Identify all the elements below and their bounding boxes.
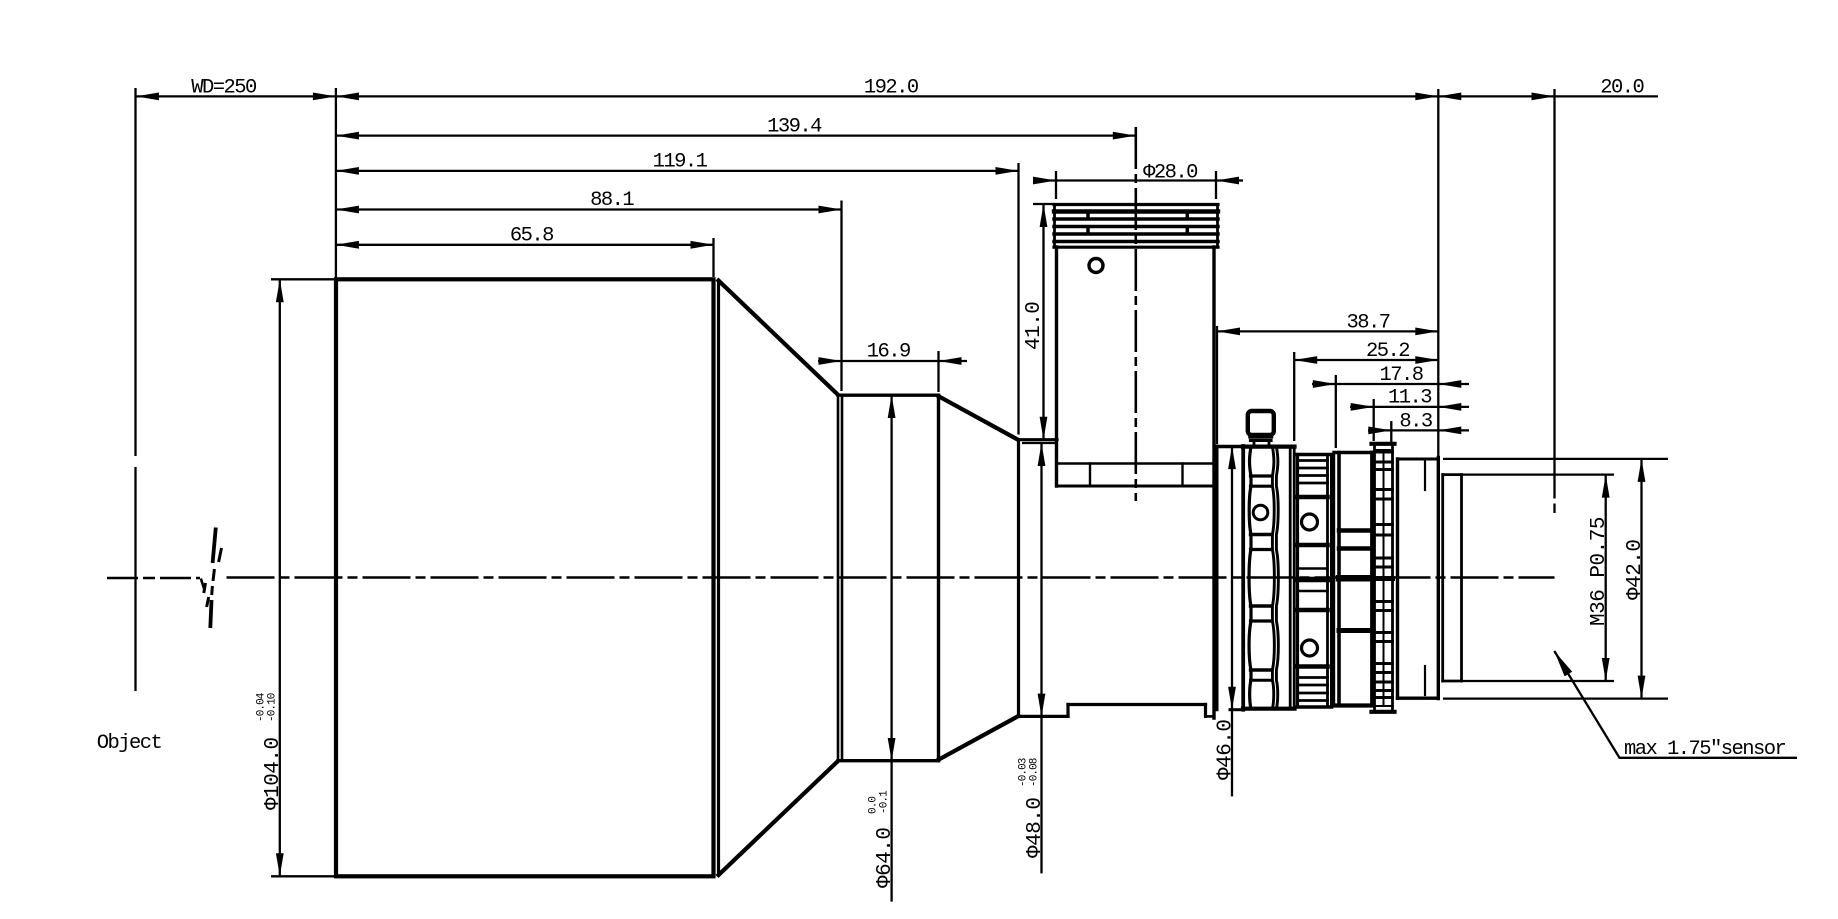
leader arrow to sensor plane — [1554, 651, 1572, 676]
phi46 arrows — [1228, 446, 1236, 469]
leader line to sensor note — [1554, 651, 1797, 758]
taper phi64 to phi48 bottom — [939, 716, 1019, 760]
extension line 20.0 right / sensor plane — [1553, 89, 1555, 499]
svg-text:-0.08: -0.08 — [1029, 758, 1041, 787]
bottom step down at 1205.5 — [1204, 705, 1207, 717]
dim phi46 vertical — [1231, 446, 1233, 796]
front ring second edge — [717, 281, 720, 876]
ring A (wide knurled ring) — [1243, 445, 1295, 449]
ring A horizontal bands — [1251, 474, 1273, 477]
svg-text:WD=250: WD=250 — [191, 77, 257, 100]
svg-text:Φ64.0: Φ64.0 — [874, 827, 897, 888]
svg-text:139.4: 139.4 — [767, 116, 822, 139]
17.8 arrows (outside) — [1313, 380, 1336, 388]
phi48 barrel left edge — [1017, 440, 1020, 716]
object plane vertical line — [134, 88, 136, 456]
label phi104.0 with tolerance — [255, 692, 285, 810]
label phi48.0 with tolerance — [1018, 758, 1048, 858]
41.0 arrows — [1040, 204, 1048, 227]
139.4 arrows — [336, 132, 359, 140]
svg-text:max 1.75″sensor: max 1.75″sensor — [1624, 738, 1786, 761]
svg-text:Object: Object — [97, 732, 162, 755]
tube cap knurl — [1054, 203, 1218, 206]
lens retainer inside tube bottom — [1057, 462, 1215, 464]
dim 17.8 — [1312, 383, 1469, 385]
phi48 bottom edge — [1019, 715, 1069, 718]
dim phi64 vertical — [890, 395, 892, 902]
extension 119.1 right at 1018.5 — [1017, 163, 1019, 435]
25.2 arrows — [1294, 356, 1317, 364]
M36 arrows — [1602, 475, 1610, 498]
recessed bottom edge — [1068, 703, 1206, 706]
svg-text:119.1: 119.1 — [653, 151, 708, 174]
ring B knurled ring — [1296, 455, 1299, 708]
svg-text:Φ46.0: Φ46.0 — [1215, 719, 1238, 780]
dim line 65.8 — [336, 244, 714, 246]
extension phi104 bottom — [271, 875, 334, 877]
thread relief verticals — [1441, 475, 1444, 681]
extension 11.3 left — [1373, 399, 1375, 441]
screw hole on tube — [1089, 259, 1103, 273]
svg-text:11.3: 11.3 — [1388, 387, 1431, 410]
dim 8.3 — [1368, 429, 1469, 431]
192.0 arrows — [336, 93, 359, 101]
extension 8.3 left — [1390, 421, 1392, 442]
WD=250 arrows — [136, 93, 159, 101]
svg-text:88.1: 88.1 — [590, 189, 634, 212]
dim phi42 vertical — [1640, 459, 1642, 699]
phi64 arrows — [888, 395, 896, 418]
section C slotted ring — [1334, 451, 1372, 454]
phi28 arrows (outside) — [1033, 177, 1056, 185]
38.7 arrows — [1217, 328, 1240, 336]
dim line phi28 — [1033, 179, 1243, 181]
dim line WD=250 + 192.0 + 20.0 — [136, 95, 1658, 97]
dim M36 vertical — [1605, 475, 1607, 681]
svg-text:Φ42.0: Φ42.0 — [1624, 539, 1647, 600]
svg-text:25.2: 25.2 — [1366, 340, 1409, 363]
20.0 arrows — [1438, 93, 1461, 101]
shelf to rear column — [1206, 715, 1214, 718]
tube left wall — [1055, 247, 1058, 486]
dim phi48 vertical — [1040, 443, 1042, 873]
svg-text:Φ48.0: Φ48.0 — [1024, 797, 1047, 858]
65.8 arrows — [336, 241, 359, 249]
dim line 16.9 — [818, 360, 967, 362]
cap side edges — [1053, 205, 1056, 248]
extension 65.8 right — [712, 238, 714, 277]
extension M36 top — [1462, 473, 1614, 475]
extension 88.1/16.9 at 841.5 — [840, 201, 842, 392]
label 41.0 — [1023, 302, 1046, 350]
dim line 119.1 — [336, 170, 1019, 172]
setscrew knob above ring A — [1248, 411, 1274, 435]
section E rear barrel phi42 — [1396, 459, 1399, 698]
16.9 arrows (outside) — [819, 357, 842, 365]
dim phi104 vertical — [279, 279, 281, 876]
8.3 arrows (outside) — [1368, 427, 1391, 435]
taper top phi104 to phi64 — [719, 281, 839, 395]
extension phi104 top — [271, 278, 334, 280]
extension 41.0 bottom — [1022, 442, 1056, 444]
dim 38.7 — [1217, 330, 1438, 332]
svg-text:20.0: 20.0 — [1600, 77, 1644, 100]
svg-text:M36 P0.75: M36 P0.75 — [1588, 517, 1611, 626]
phi48 arrows — [1038, 443, 1046, 466]
svg-text:41.0: 41.0 — [1023, 302, 1046, 350]
cap knurl vertical breaks — [1086, 214, 1090, 219]
ring A inner wavy lines — [1249, 447, 1251, 709]
dim 25.2 — [1294, 359, 1438, 361]
extension 38.7 left — [1216, 326, 1218, 444]
phi64 cylinder — [837, 395, 840, 761]
rear face at flange distance — [1437, 458, 1440, 699]
bottom step up at 1068 — [1066, 705, 1069, 717]
extension 16.9 right — [937, 351, 939, 392]
11.3 arrows (outside) — [1351, 403, 1374, 411]
svg-text:8.3: 8.3 — [1399, 411, 1432, 434]
taper bottom — [719, 761, 839, 875]
dim line 41.0 vertical — [1042, 204, 1044, 440]
extension line 20.0 left at rear flange face — [1437, 89, 1439, 458]
label phi46.0 — [1215, 719, 1238, 780]
label phi64.0 with tolerance — [868, 790, 898, 888]
svg-text:16.9: 16.9 — [867, 341, 910, 364]
ring B middle bands — [1298, 495, 1328, 500]
svg-text:Φ104.0: Φ104.0 — [262, 737, 285, 810]
119.1 arrows — [336, 167, 359, 175]
svg-text:38.7: 38.7 — [1346, 312, 1389, 335]
extension phi28 right — [1215, 171, 1217, 199]
taper phi64 to phi48 top — [939, 396, 1019, 440]
break (zigzag) symbol on object line — [213, 528, 216, 564]
svg-text:-0.10: -0.10 — [266, 693, 278, 722]
extension line above body left edge — [335, 88, 337, 279]
M36 thread top/bottom edges — [1443, 473, 1462, 476]
main barrel phi104 rectangle — [336, 279, 714, 876]
ring D thin knurled lock ring — [1372, 442, 1395, 446]
label phi42.0 — [1624, 539, 1647, 600]
barrel right edge / tube right wall column — [1212, 247, 1215, 718]
ring B screws — [1302, 514, 1318, 530]
dim 11.3 — [1350, 406, 1469, 408]
svg-text:65.8: 65.8 — [510, 225, 553, 248]
svg-text:192.0: 192.0 — [864, 77, 919, 100]
extension phi42 top — [1443, 458, 1668, 460]
phi42 arrows — [1638, 459, 1646, 482]
extension phi42 bottom — [1443, 697, 1668, 699]
svg-text:Φ28.0: Φ28.0 — [1143, 162, 1198, 185]
extension 17.8 left — [1335, 375, 1337, 448]
ring A screw — [1253, 505, 1268, 520]
vertical tube axis centerline — [1135, 127, 1138, 501]
extension 41.0 top — [1033, 203, 1054, 205]
dim line 88.1 — [336, 208, 842, 210]
phi46 flange disc — [1216, 446, 1219, 710]
svg-text:-0.1: -0.1 — [879, 790, 891, 814]
extension M36 bottom — [1462, 680, 1614, 682]
extension phi28 left — [1055, 171, 1057, 199]
svg-text:17.8: 17.8 — [1379, 364, 1422, 387]
ring B knurl rows top — [1298, 459, 1328, 462]
ring B knurl rows bottom — [1298, 676, 1328, 679]
dim line 139.4 — [336, 134, 1136, 136]
88.1 arrows — [336, 206, 359, 214]
extension 25.2 left — [1293, 352, 1295, 441]
phi48 top edge — [1019, 438, 1058, 441]
label M36 P0.75 — [1588, 517, 1611, 626]
ring D knurl ticks — [1375, 451, 1393, 454]
main optical axis centerline — [107, 577, 200, 580]
phi104 arrows — [276, 279, 284, 302]
